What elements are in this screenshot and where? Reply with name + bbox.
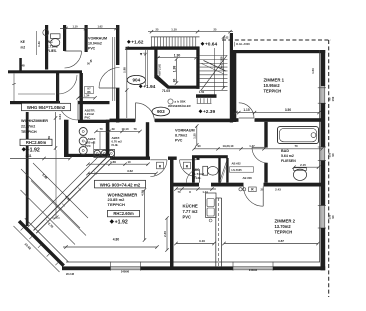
svg-text:TEPPICH: TEPPICH	[108, 202, 125, 207]
stair break z-line	[204, 61, 226, 72]
backslash dim line 2	[33, 163, 88, 218]
wall: right outer wall band seg4	[321, 228, 326, 270]
vertical extension line with tick	[55, 150, 57, 218]
dim row kueche door	[176, 188, 216, 190]
svg-text:AUFZUG: AUFZUG	[158, 63, 162, 76]
svg-text:+2.39: +2.39	[203, 109, 215, 115]
stair flight treads right of shaft	[200, 55, 228, 57]
svg-text:150: 150	[331, 96, 335, 101]
svg-text:10.04m2: 10.04m2	[88, 42, 102, 46]
dim 2.30 vertical	[166, 218, 168, 250]
window Bad right (grey glazing)	[321, 147, 325, 161]
svg-text:WHG 904=71.08m2: WHG 904=71.08m2	[27, 105, 66, 110]
svg-text:KÜCHE: KÜCHE	[183, 204, 198, 209]
svg-text:1.15: 1.15	[243, 108, 249, 112]
toilet WC903	[203, 166, 208, 175]
svg-text:28 2.38: 28 2.38	[66, 273, 75, 276]
svg-text:+1.92: +1.92	[27, 147, 40, 153]
stair flight centre line	[214, 48, 216, 95]
closet divider wall y119.7	[78, 120, 110, 123]
svg-text:1.50: 1.50	[199, 90, 205, 94]
level +1.92 flat904	[22, 147, 26, 151]
svg-text:O.GL.#300: O.GL.#300	[236, 42, 250, 46]
wall: Zimmer1 top outer wall	[233, 50, 325, 53]
level label +1.62	[127, 40, 131, 44]
svg-text:904: 904	[132, 78, 140, 83]
boiler circles column in closet	[79, 128, 87, 136]
svg-text:70: 70	[178, 190, 181, 194]
wall: left outer wall of flat 904	[26, 112, 29, 226]
level label +1.94	[139, 84, 143, 88]
svg-text:903: 903	[157, 109, 165, 114]
svg-text:240/90: 240/90	[249, 268, 258, 272]
window Zimmer1 right (grey glazing)	[321, 86, 325, 103]
svg-text:90: 90	[197, 144, 201, 148]
top dim row above vorraum904	[60, 28, 117, 30]
door arc to Wohnzimmer	[150, 160, 167, 177]
wall: vorraum903 bottom wall w/ door gaps	[110, 157, 150, 160]
window Wohnzimmer bottom (grey glazing)	[111, 267, 141, 270]
K7 BS box	[85, 87, 94, 94]
oval flat number 904	[127, 75, 145, 84]
svg-text:TEPPICH: TEPPICH	[21, 130, 37, 134]
svg-text:TEPPICH: TEPPICH	[275, 230, 293, 235]
dim 4.80 horizontal	[63, 246, 157, 248]
window Zimmer2 right (grey glazing)	[321, 206, 325, 229]
svg-text:1.38: 1.38	[172, 66, 176, 73]
wall: bottom outer wall band left	[62, 266, 111, 270]
svg-text:PVC: PVC	[85, 116, 91, 120]
svg-text:WASSERZÄHLER: WASSERZÄHLER	[168, 104, 191, 108]
dashed site boundary top	[222, 39, 331, 41]
wall: horizontal wall y101 left flat	[10, 101, 60, 104]
svg-text:70: 70	[294, 144, 298, 148]
svg-text:240/90: 240/90	[121, 270, 130, 274]
svg-text:PVC: PVC	[85, 144, 91, 148]
vorraum903 vertical dim	[196, 126, 198, 145]
svg-text:1.44: 1.44	[202, 190, 208, 194]
svg-text:4.61: 4.61	[58, 114, 62, 120]
svg-text:ZIMMER 2: ZIMMER 2	[275, 219, 296, 224]
diagonal dimension line parallel	[27, 155, 100, 228]
door arc WC903	[186, 169, 199, 182]
boxed label WHG 904	[22, 103, 71, 110]
svg-text:2.30: 2.30	[163, 231, 167, 237]
svg-text:TEPPICH: TEPPICH	[264, 89, 282, 94]
window Zimmer2 bottom (grey glazing)	[233, 267, 273, 270]
dim 4.59 vertical	[144, 190, 146, 240]
svg-text:4.80: 4.80	[113, 237, 120, 241]
stair top dimension line	[148, 31, 233, 33]
door arc Zimmer1	[239, 103, 254, 118]
svg-text:VORRAUM: VORRAUM	[88, 37, 107, 41]
dim row y172.5	[88, 173, 156, 175]
wall: WC904 east wall upper	[63, 25, 66, 51]
dim line left of landing	[126, 48, 128, 118]
svg-text:1.47: 1.47	[249, 144, 255, 148]
svg-text:AB #08: AB #08	[243, 176, 253, 180]
svg-text:7.77 m2: 7.77 m2	[183, 209, 199, 214]
svg-text:WC: WC	[47, 40, 53, 44]
svg-text:1.71m2: 1.71m2	[47, 45, 58, 49]
svg-text:13.70m2: 13.70m2	[275, 224, 292, 229]
hatch ticks on chamfer wall	[21, 227, 24, 230]
svg-text:FLIES.: FLIES.	[47, 49, 57, 53]
entry door arc flat 903	[136, 103, 155, 122]
svg-text:2.43: 2.43	[275, 187, 281, 191]
svg-text:+1.94: +1.94	[143, 84, 155, 90]
svg-text:ZIMMER 1: ZIMMER 1	[264, 78, 285, 83]
door arc to Kueche	[180, 160, 197, 177]
dim 3.87 zimmer2	[224, 243, 318, 245]
svg-text:36: 36	[232, 108, 236, 112]
closet thin partition	[93, 141, 95, 149]
wall: bottom outer wall band right	[273, 266, 325, 270]
svg-text:FLIE.: FLIE.	[194, 176, 201, 180]
shaft next to WC	[218, 158, 220, 183]
svg-text:⌀ ls SBK: ⌀ ls SBK	[175, 100, 186, 104]
thin rail lines x112-114	[111, 37, 113, 101]
wall: Kueche/Zimmer2 light partition	[215, 198, 217, 266]
svg-text:1.10: 1.10	[72, 25, 78, 29]
dim row vorraum903 top	[96, 130, 140, 132]
svg-text:71.05: 71.05	[162, 89, 170, 93]
svg-text:VORRAUM: VORRAUM	[175, 129, 195, 133]
door arc Bad	[252, 147, 268, 163]
svg-text:39: 39	[111, 127, 115, 131]
svg-text:1.34: 1.34	[84, 94, 90, 98]
svg-text:1.55: 1.55	[193, 133, 197, 139]
dim row under wall y163.5	[88, 163, 148, 165]
door arc 904 hall 2	[59, 101, 79, 121]
small basin circle WC904	[43, 30, 49, 36]
landing bottom wall	[110, 119, 136, 123]
thin outer offset line along chamfer	[14, 226, 60, 272]
inner face thin line along chamfer	[25, 218, 69, 262]
stair dim vertical right	[223, 37, 225, 88]
water meter note	[168, 99, 173, 104]
kitchen904 circles row frame	[94, 149, 115, 157]
door arc 904 hall 1	[58, 75, 77, 94]
wall: Bad west wall lower	[264, 163, 267, 183]
wall x64-68 closet west	[64, 120, 69, 157]
wall: landing south of right flight	[196, 94, 217, 98]
stair treads top flight	[151, 37, 153, 47]
thin rail lines x145-147	[144, 50, 146, 86]
svg-text:AB #22: AB #22	[232, 161, 242, 165]
wall: Zimmer1 west wall	[233, 50, 236, 122]
svg-text:1.98: 1.98	[123, 67, 127, 73]
svg-text:2.02: 2.02	[224, 37, 229, 40]
dashed site boundary right	[328, 40, 330, 297]
bottom outer wall inner face line	[66, 261, 320, 263]
svg-text:+0.64: +0.64	[205, 42, 217, 48]
svg-text:3.62: 3.62	[127, 169, 133, 173]
svg-text:10,10: 10,10	[122, 127, 129, 131]
wall: staircase east wall	[230, 33, 233, 123]
wall: lift shaft left	[154, 47, 157, 76]
level label +2.39	[199, 109, 203, 113]
dim 3.10 kueche	[176, 243, 214, 245]
svg-text:48: 48	[22, 64, 26, 68]
svg-text:90: 90	[331, 215, 335, 219]
kitchen904 circles row	[94, 150, 100, 156]
svg-text:KE: KE	[21, 40, 25, 44]
wall fragment top-left vertical	[19, 58, 22, 73]
wall: WC903 west wall	[192, 158, 195, 183]
wall: lift shaft bottom with chamfer	[154, 75, 199, 89]
svg-text:70: 70	[133, 127, 137, 131]
wall: diagonal 904/903 boundary (thin double line)	[34, 155, 110, 231]
wall: staircase west wall lower	[116, 88, 119, 123]
door arc vorraum904 to landing	[99, 68, 120, 89]
bathtub in Bad	[278, 127, 319, 144]
wall: staircase west wall upper	[116, 25, 119, 65]
svg-text:RH=2.60m: RH=2.60m	[113, 211, 134, 216]
wall: vorraum903 west wall x146	[146, 122, 149, 157]
svg-text:WOHNZIMMER: WOHNZIMMER	[21, 119, 48, 123]
svg-text:WHG 903=74.42 m2: WHG 903=74.42 m2	[100, 182, 141, 187]
boxed label RH 903	[108, 210, 140, 216]
svg-text:m2: m2	[21, 46, 26, 50]
svg-text:22.17m2: 22.17m2	[21, 125, 35, 129]
svg-text:1.30: 1.30	[174, 54, 181, 58]
svg-text:RH=2.60m: RH=2.60m	[26, 140, 47, 145]
svg-text:70: 70	[99, 127, 103, 131]
svg-text:2.15: 2.15	[300, 163, 306, 167]
svg-text:16x17.2/28: 16x17.2/28	[219, 56, 223, 70]
svg-text:10: 10	[127, 160, 131, 164]
backslash dim line 1	[21, 169, 80, 228]
svg-text:1.66: 1.66	[110, 160, 116, 164]
svg-text:80: 80	[172, 79, 176, 83]
svg-text:FLIE.: FLIE.	[112, 143, 119, 147]
svg-text:20: 20	[261, 187, 264, 191]
oval flat number 903	[152, 107, 170, 116]
wall: flat904 vorraum stub wall	[85, 25, 88, 52]
svg-text:90: 90	[331, 153, 335, 157]
svg-text:4.59: 4.59	[140, 190, 144, 196]
svg-text:1.41: 1.41	[37, 41, 41, 47]
wall: vertical wall x79.5 between 904 rooms	[80, 73, 83, 123]
svg-text:+1.92: +1.92	[115, 220, 128, 226]
mini flight treads on landing	[196, 98, 198, 103]
wall: closet0.70 west wall x106	[106, 120, 110, 157]
top-left vertical dim line	[35, 31, 37, 55]
radiator symbol Kueche door	[184, 162, 191, 169]
dim 1.59 vertical flat904	[55, 112, 57, 150]
svg-text:3.87: 3.87	[278, 239, 284, 243]
svg-text:3.10: 3.10	[199, 239, 205, 243]
wall: right outer wall band seg1	[321, 50, 326, 86]
wall: Zimmer1 bottom wall	[233, 118, 239, 122]
wall: right outer wall band seg2	[321, 103, 326, 147]
dim 1.34	[78, 97, 95, 99]
svg-text:5.64 m2: 5.64 m2	[281, 154, 294, 158]
door arc WC904	[65, 51, 82, 68]
stair walk line diagonal	[201, 56, 227, 91]
wall: Wohnzimmer/Kueche divider	[170, 157, 174, 267]
svg-text:BAD: BAD	[281, 149, 289, 153]
svg-text:PVC: PVC	[183, 215, 191, 220]
svg-text:1.62: 1.62	[97, 25, 103, 29]
svg-text:1.10: 1.10	[171, 28, 177, 32]
wall: right outer wall band seg3	[321, 161, 326, 206]
wall: lift shaft right	[196, 47, 199, 89]
svg-text:4.11: 4.11	[25, 154, 31, 158]
svg-text:+1.62: +1.62	[131, 40, 143, 46]
wall: SW diagonal outer wall (chamfer)	[18, 220, 65, 267]
hatch on diagonal boundary	[46, 220, 49, 223]
wall: Bad west wall upper	[264, 122, 267, 147]
svg-text:19,30,10: 19,30,10	[223, 144, 234, 148]
svg-text:8.79m2: 8.79m2	[175, 134, 187, 138]
boxed label RH 904	[20, 139, 52, 145]
door arc Zimmer2	[244, 187, 264, 207]
left small dim line y94	[18, 93, 55, 95]
wall: vertical wall x56 between 904 rooms	[56, 73, 59, 102]
toilet in WC904	[51, 34, 61, 39]
right outer wall inner face line	[319, 50, 321, 262]
svg-text:FLIESEN: FLIESEN	[281, 159, 296, 163]
closet bottom wall y153.5	[66, 154, 110, 157]
level +1.92 flat903	[110, 219, 114, 223]
Zimmer1 bottom dim line	[236, 112, 319, 114]
svg-text:PVC: PVC	[88, 47, 96, 51]
boxed label WHG 903	[95, 180, 146, 188]
svg-text:PVC: PVC	[175, 139, 183, 143]
dim 4.11 flat904	[10, 158, 70, 160]
kitchen counter with sink	[206, 193, 216, 218]
radiator symbol Wohnzimmer door	[157, 162, 164, 169]
wall: WC904 west wall	[45, 25, 48, 70]
radiator Zimmer2	[249, 187, 257, 192]
svg-text:3.50: 3.50	[285, 108, 291, 112]
wall: corridor south wall	[174, 183, 200, 187]
dim row corridor y147.5	[194, 148, 322, 150]
svg-text:10.95m2: 10.95m2	[264, 83, 281, 88]
svg-text:LS #165: LS #165	[232, 168, 243, 172]
wall: WC903 top wall	[192, 155, 228, 158]
lift shaft inner dims	[158, 57, 196, 59]
wall: top of lift shaft / treads bottom	[126, 47, 200, 50]
wall: bottom outer wall band middle	[141, 266, 234, 270]
svg-text:1.53: 1.53	[311, 68, 315, 74]
level label +0.64	[201, 42, 205, 46]
washbasin in Bad	[293, 169, 306, 180]
wall: bottom of left WC room band	[8, 70, 82, 73]
